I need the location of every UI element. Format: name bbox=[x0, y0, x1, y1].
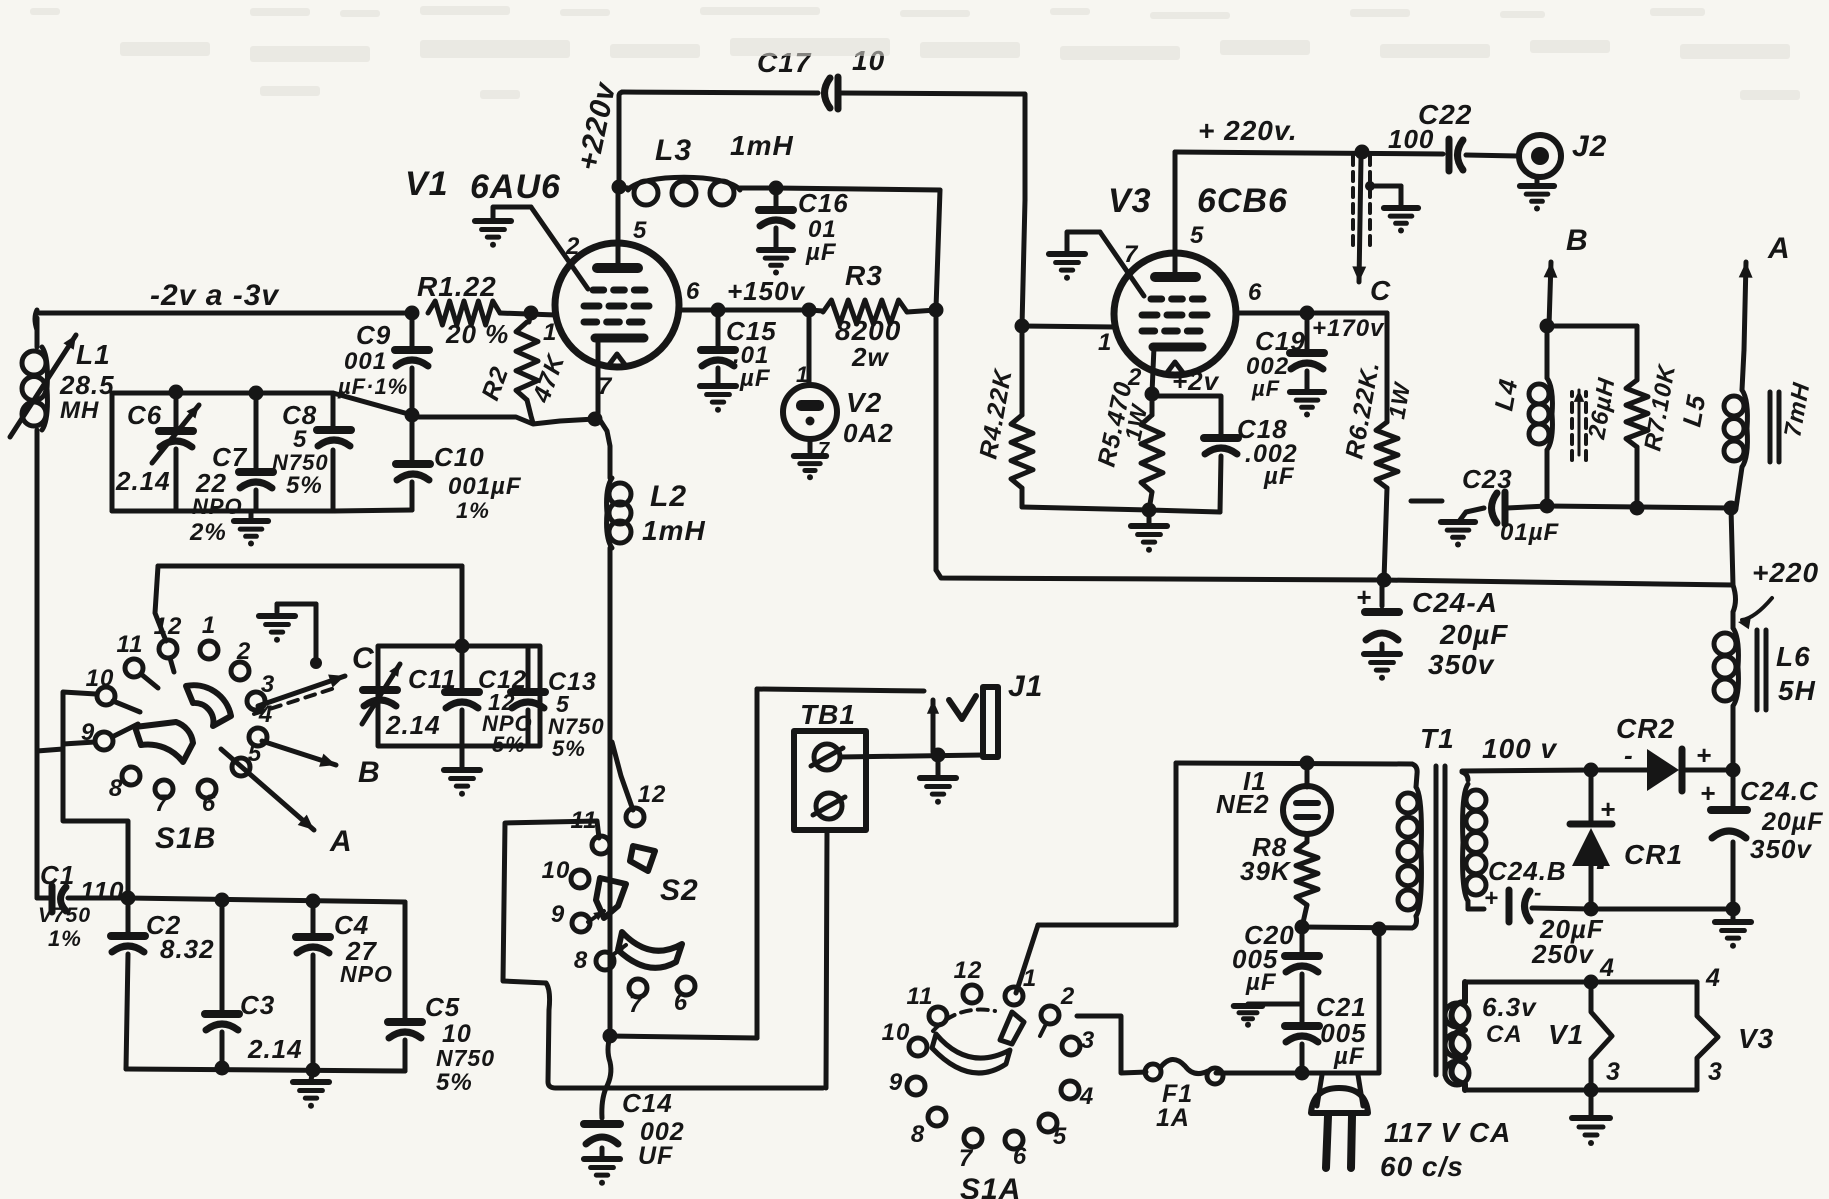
svg-text:L2: L2 bbox=[650, 480, 687, 513]
svg-text:C10: C10 bbox=[434, 442, 485, 472]
wire S1B flag bottom bbox=[63, 742, 95, 744]
label R3 bbox=[845, 260, 883, 291]
rotor S1B upper wedge bbox=[186, 685, 231, 726]
svg-text:µF: µF bbox=[1251, 376, 1280, 401]
label V3 pin7 bbox=[1124, 241, 1139, 268]
label + 220v. bbox=[1198, 115, 1298, 146]
wire secondary top bbox=[1462, 770, 1591, 771]
wire cap box bottom bbox=[112, 509, 333, 514]
svg-text:5: 5 bbox=[293, 426, 307, 453]
label L6 bbox=[1776, 641, 1811, 672]
ground J1 bbox=[920, 757, 956, 805]
arrow B output bbox=[1544, 224, 1589, 326]
label L1 bbox=[76, 339, 111, 370]
lamp I1 wire bbox=[1305, 763, 1310, 787]
svg-text:11: 11 bbox=[117, 631, 144, 658]
svg-text:1mH: 1mH bbox=[642, 515, 706, 546]
svg-text:1mH: 1mH bbox=[730, 130, 794, 161]
svg-text:+: + bbox=[1600, 794, 1616, 824]
arrow S2 tick9 bbox=[588, 911, 604, 922]
label V1 heater bbox=[1548, 1019, 1584, 1050]
label R8 bbox=[1252, 832, 1287, 862]
label C9 bbox=[356, 320, 391, 350]
label +220v rot bbox=[572, 78, 623, 173]
transformer T1 core bbox=[1436, 766, 1445, 1075]
svg-text:V2: V2 bbox=[846, 387, 882, 418]
label C23 minus bbox=[1411, 499, 1442, 504]
wire S1B tick 9 bbox=[112, 724, 138, 737]
label V2 pin7 bbox=[818, 439, 830, 461]
wire C9 node to cathode bbox=[412, 417, 595, 424]
wire V3 cathode bbox=[1152, 347, 1154, 393]
label C2 bbox=[146, 910, 181, 940]
ground C16 bbox=[759, 250, 793, 276]
svg-text:10: 10 bbox=[86, 665, 115, 692]
wire B+ rail right bbox=[1384, 580, 1733, 585]
node CR1 top bbox=[1584, 763, 1599, 778]
scan ghost marks bbox=[30, 6, 1800, 100]
svg-text:µF·1%: µF·1% bbox=[337, 374, 408, 399]
svg-text:28.5: 28.5 bbox=[59, 370, 115, 400]
resistor R4 bbox=[1011, 326, 1033, 507]
label R2 bbox=[476, 363, 514, 404]
label T1 bbox=[1420, 723, 1455, 754]
label R1 tol bbox=[445, 319, 509, 349]
label C9 value bbox=[344, 348, 387, 375]
capacitor C24A electrolytic bbox=[1356, 580, 1399, 652]
wire L3 to R3 rail bbox=[776, 188, 940, 190]
ground filament bbox=[1572, 1090, 1610, 1146]
svg-text:5%: 5% bbox=[492, 732, 526, 757]
wire C17 drop bbox=[1022, 200, 1025, 326]
label C7 tol bbox=[189, 519, 227, 546]
wire C17 left bbox=[622, 92, 818, 93]
label C10 tol bbox=[456, 498, 490, 523]
wire V1 pin5 bbox=[616, 187, 621, 266]
svg-text:7: 7 bbox=[959, 1145, 974, 1172]
wire left rail upper bbox=[35, 318, 40, 347]
svg-text:T1: T1 bbox=[1420, 723, 1455, 754]
label C20 unit bbox=[1245, 969, 1277, 996]
wire S2 bottom link bbox=[556, 1086, 823, 1091]
svg-text:A: A bbox=[329, 825, 353, 858]
svg-text:C24.C: C24.C bbox=[1740, 776, 1819, 806]
label J2 bbox=[1572, 130, 1607, 163]
wire cap box left bbox=[110, 393, 115, 511]
capacitor C11 variable bbox=[362, 664, 400, 724]
label V3 pin5 bbox=[1190, 222, 1204, 249]
svg-text:C5: C5 bbox=[425, 992, 460, 1022]
svg-text:60 c/s: 60 c/s bbox=[1380, 1151, 1464, 1182]
svg-text:6: 6 bbox=[1248, 279, 1262, 306]
switch S1B contacts bbox=[95, 640, 267, 798]
wire rail to S1B flag bbox=[37, 749, 63, 751]
label R6 bbox=[1340, 359, 1385, 461]
svg-text:5: 5 bbox=[248, 740, 262, 767]
label C21 bbox=[1316, 992, 1367, 1022]
label C18 value bbox=[1245, 440, 1298, 468]
svg-text:-: - bbox=[1624, 740, 1634, 770]
rotor S1A wedge bbox=[1000, 1012, 1024, 1044]
wire top 220 rail bbox=[1175, 152, 1443, 154]
label T1 volt bbox=[1482, 733, 1557, 764]
resistor R2 bbox=[516, 313, 538, 423]
arrow C wiper bbox=[254, 675, 345, 715]
svg-text:+: + bbox=[1700, 778, 1716, 808]
svg-text:7: 7 bbox=[155, 790, 170, 817]
core L5 bbox=[1770, 392, 1779, 462]
label C24B value bbox=[1539, 914, 1604, 944]
label C1 bbox=[40, 860, 75, 890]
wire S1A riser h bbox=[1038, 923, 1176, 928]
wire S1A to fuse bbox=[1077, 1016, 1146, 1073]
node J1 ground bbox=[931, 748, 946, 763]
wire plug drop bbox=[1377, 929, 1382, 1073]
label C5 bbox=[425, 992, 460, 1022]
dashed tuning arrow L4 bbox=[1572, 390, 1586, 460]
dashed C link bbox=[1353, 156, 1370, 245]
wire S1A contact1 diag bbox=[1016, 925, 1038, 993]
label L3 value bbox=[730, 130, 794, 161]
svg-text:-: - bbox=[1534, 880, 1542, 905]
label C19 bbox=[1255, 326, 1306, 356]
label L2 bbox=[650, 480, 687, 513]
label V2 type bbox=[843, 418, 894, 448]
svg-text:0A2: 0A2 bbox=[843, 418, 894, 448]
svg-text:5: 5 bbox=[1190, 222, 1204, 249]
wire pin6 to V2 node bbox=[718, 308, 809, 313]
svg-text:B: B bbox=[1566, 224, 1589, 257]
label V2 bbox=[846, 387, 882, 418]
arrow A wiper bbox=[221, 749, 314, 830]
label C21 unit bbox=[1333, 1043, 1365, 1070]
rotor S2 arc bbox=[618, 932, 682, 968]
capacitor C17 bbox=[825, 77, 839, 109]
label A wiper bbox=[329, 825, 353, 858]
svg-text:C6: C6 bbox=[127, 400, 162, 430]
tube V3 envelope bbox=[1114, 253, 1236, 375]
capacitor C23 bbox=[1441, 492, 1547, 548]
label V1 pin2 bbox=[565, 233, 580, 260]
ground botbox bbox=[293, 1070, 329, 1109]
svg-text:L6: L6 bbox=[1776, 641, 1811, 672]
label C4 tc bbox=[340, 961, 393, 987]
capacitor C16 bbox=[759, 188, 793, 248]
capacitor C7 bbox=[239, 393, 273, 511]
resistor R5 bbox=[1141, 394, 1163, 510]
label R4 bbox=[974, 366, 1018, 461]
wire R4 bottom rail bbox=[1022, 507, 1149, 510]
wire C20 ground stub bbox=[1234, 1004, 1302, 1028]
capacitor C24C bbox=[1711, 770, 1747, 909]
ground C15 bbox=[700, 386, 736, 413]
label C arrow bbox=[1370, 275, 1391, 306]
node R1 left bbox=[405, 306, 420, 321]
node cathode join bbox=[588, 412, 603, 427]
svg-text:7: 7 bbox=[1124, 241, 1139, 268]
switch S2 contact numbers bbox=[542, 781, 689, 1018]
label V1 pin6 bbox=[686, 278, 700, 305]
svg-text:C3: C3 bbox=[240, 990, 275, 1020]
svg-text:CA: CA bbox=[1486, 1021, 1523, 1048]
node filament pin3 bbox=[1584, 1083, 1599, 1098]
label C10 bbox=[434, 442, 485, 472]
inductor L4 bbox=[1529, 326, 1552, 506]
wire S1B flag top bbox=[63, 692, 96, 744]
label L6 value bbox=[1778, 675, 1816, 706]
label pin4 V1 bbox=[1599, 954, 1615, 982]
label C24C plus bbox=[1700, 778, 1716, 808]
label V1 pin5 bbox=[633, 217, 647, 244]
diode CR2 bbox=[1647, 749, 1733, 791]
label +220 hook bbox=[1738, 557, 1819, 629]
svg-text:1: 1 bbox=[1098, 329, 1112, 356]
svg-text:S1B: S1B bbox=[155, 822, 216, 855]
svg-text:+2v: +2v bbox=[1172, 366, 1220, 396]
rotor S1B lower wedge bbox=[135, 722, 193, 762]
capacitor C5 bbox=[388, 902, 422, 1071]
resistor R8 bbox=[1296, 834, 1318, 927]
svg-text:4: 4 bbox=[1705, 964, 1721, 992]
transformer T1 primary bbox=[1398, 764, 1421, 928]
svg-text:A: A bbox=[1767, 232, 1791, 265]
wire S2 to mains wire bbox=[546, 983, 556, 1088]
diode CR1 bbox=[1570, 770, 1612, 909]
svg-text:+: + bbox=[1696, 740, 1712, 770]
label L4 bbox=[1488, 376, 1523, 413]
label L5 bbox=[1676, 392, 1711, 429]
svg-text:C9: C9 bbox=[356, 320, 391, 350]
node C16 top bbox=[769, 181, 784, 196]
label C6 bbox=[127, 400, 162, 430]
label R2 pin1 bbox=[543, 319, 557, 346]
svg-text:5%: 5% bbox=[552, 736, 586, 761]
svg-text:B: B bbox=[358, 756, 381, 789]
wire R7 drop bbox=[1635, 326, 1640, 380]
svg-text:5%: 5% bbox=[436, 1069, 473, 1096]
label C8 tol bbox=[286, 472, 323, 499]
wire L5 rail drop bbox=[1731, 508, 1733, 585]
label C24B bbox=[1488, 856, 1567, 886]
label R5 bbox=[1092, 379, 1137, 470]
label C8 value bbox=[293, 426, 307, 453]
label V3 pin1 bbox=[1098, 329, 1112, 356]
svg-text:2.14: 2.14 bbox=[385, 710, 441, 740]
wire C23 rail bbox=[1547, 506, 1731, 508]
svg-text:3: 3 bbox=[1708, 1058, 1723, 1086]
resistor R1 bbox=[428, 301, 500, 325]
ground C24C bbox=[1715, 909, 1751, 949]
wire C17 right bbox=[841, 93, 1025, 200]
terminal block TB1 bbox=[794, 731, 866, 830]
wire plate riser bbox=[619, 92, 624, 187]
svg-text:6: 6 bbox=[1013, 1143, 1027, 1170]
wire C16 rail drop bbox=[936, 190, 940, 308]
switch S1A contact numbers bbox=[882, 957, 1096, 1172]
label V1 pin7 bbox=[598, 373, 613, 400]
label +2v bbox=[1172, 366, 1220, 396]
wire box2 top edge bbox=[158, 564, 462, 569]
rotor S2 wedge 9 bbox=[596, 878, 626, 918]
resistor R3 bbox=[809, 300, 936, 324]
svg-text:20µF: 20µF bbox=[1761, 808, 1823, 836]
capacitor C22 bbox=[1449, 139, 1463, 171]
capacitor C6 variable bbox=[152, 392, 199, 511]
label C16 unit bbox=[805, 239, 837, 266]
node C14 top bbox=[603, 1029, 618, 1044]
svg-text:250v: 250v bbox=[1531, 939, 1594, 969]
svg-text:C19: C19 bbox=[1255, 326, 1306, 356]
wire L4 R7 rail bbox=[1547, 324, 1637, 329]
wire L2 down bbox=[608, 548, 613, 1035]
svg-text:C24-A: C24-A bbox=[1412, 587, 1498, 618]
capacitor C21 bbox=[1285, 1004, 1319, 1073]
wire V3 pin1 bbox=[1022, 326, 1115, 327]
svg-text:V1: V1 bbox=[1548, 1019, 1584, 1050]
svg-text:1: 1 bbox=[202, 612, 216, 639]
svg-text:L5: L5 bbox=[1676, 392, 1711, 429]
label I1 type bbox=[1216, 789, 1270, 819]
svg-text:5: 5 bbox=[1053, 1123, 1067, 1150]
label C15 bbox=[726, 316, 777, 346]
svg-text:L3: L3 bbox=[655, 134, 692, 167]
svg-text:6CB6: 6CB6 bbox=[1197, 182, 1288, 220]
svg-text:N750: N750 bbox=[436, 1045, 495, 1071]
svg-text:350v: 350v bbox=[1428, 649, 1495, 680]
label C16 value bbox=[808, 216, 837, 243]
wire primary bottom bbox=[1302, 927, 1412, 928]
node rail dashed C bbox=[1355, 145, 1370, 160]
label C18 unit bbox=[1263, 463, 1295, 490]
label C1 value bbox=[80, 876, 124, 906]
label C12 value bbox=[488, 689, 516, 715]
switch S1B contact numbers bbox=[81, 612, 275, 817]
inductor L1 bbox=[10, 335, 76, 437]
label L1 value bbox=[59, 370, 115, 400]
node R3 right bbox=[929, 303, 944, 318]
label L1 unit bbox=[60, 397, 99, 424]
svg-text:2: 2 bbox=[236, 638, 251, 665]
label C wiper bbox=[352, 642, 375, 675]
capacitor C19 bbox=[1290, 313, 1324, 390]
ground R5 bbox=[1131, 512, 1167, 553]
label C17 bbox=[757, 47, 812, 78]
label mains volt bbox=[1384, 1117, 1511, 1148]
wire box2 right edge bbox=[460, 566, 465, 646]
label C8 tc bbox=[272, 450, 329, 475]
label J1 bbox=[1008, 670, 1043, 703]
svg-text:001: 001 bbox=[344, 348, 387, 375]
node R5 bottom bbox=[1142, 503, 1157, 518]
svg-text:110: 110 bbox=[80, 876, 124, 906]
svg-text:+ 220v.: + 220v. bbox=[1198, 115, 1298, 146]
capacitor C10 bbox=[334, 415, 430, 511]
node C6 top bbox=[169, 385, 184, 400]
svg-text:V1: V1 bbox=[405, 165, 449, 203]
ground C24A bbox=[1364, 654, 1400, 681]
svg-text:10: 10 bbox=[542, 857, 571, 884]
wire V1 grid lead bbox=[531, 207, 588, 289]
label C13 value bbox=[556, 691, 570, 717]
wire V1 pin7 cathode bbox=[598, 340, 610, 478]
label V3 type bbox=[1197, 182, 1288, 220]
label C24A bbox=[1412, 587, 1498, 618]
core L6 bbox=[1757, 630, 1766, 710]
arrow A output bbox=[1739, 232, 1791, 350]
label C9 unit bbox=[337, 374, 408, 399]
svg-text:20 %: 20 % bbox=[445, 319, 509, 349]
label +150v bbox=[727, 276, 806, 306]
svg-text:001µF: 001µF bbox=[448, 473, 522, 500]
svg-text:3: 3 bbox=[261, 671, 275, 698]
wire cap box top bbox=[112, 393, 412, 415]
label F1 value bbox=[1156, 1104, 1190, 1132]
label C15 unit bbox=[739, 365, 771, 392]
label C4 bbox=[334, 910, 369, 940]
label C2 value bbox=[160, 934, 215, 964]
wire B+ drop bbox=[934, 310, 939, 570]
wire left rail lower bbox=[35, 430, 40, 898]
svg-text:3: 3 bbox=[1081, 1027, 1095, 1054]
label R5 watt bbox=[1119, 401, 1152, 443]
svg-text:µF: µF bbox=[739, 365, 771, 392]
svg-text:01µF: 01µF bbox=[1500, 519, 1560, 546]
wire S1B contact9 leg bbox=[63, 744, 128, 898]
label V3 pin2 bbox=[1127, 364, 1142, 391]
svg-text:1: 1 bbox=[796, 362, 809, 387]
svg-text:6: 6 bbox=[686, 278, 700, 305]
svg-text:1%: 1% bbox=[456, 498, 490, 523]
svg-text:L4: L4 bbox=[1488, 376, 1523, 413]
node R7 bottom bbox=[1630, 501, 1645, 516]
svg-text:9: 9 bbox=[889, 1069, 903, 1096]
label CR2 bbox=[1616, 713, 1675, 744]
svg-text:5: 5 bbox=[633, 217, 647, 244]
box C11-C13 bbox=[378, 646, 540, 746]
tube V1 envelope bbox=[555, 243, 679, 367]
label L4 value bbox=[1583, 375, 1621, 442]
svg-text:20µF: 20µF bbox=[1439, 619, 1508, 650]
svg-text:µF: µF bbox=[1333, 1043, 1365, 1070]
svg-text:L1: L1 bbox=[76, 339, 111, 370]
svg-text:NPO: NPO bbox=[192, 494, 243, 519]
wire R1 to V1 grid bbox=[500, 313, 556, 315]
svg-text:C: C bbox=[1370, 275, 1391, 306]
resistor R7 bbox=[1626, 380, 1648, 508]
label pin3 V1 bbox=[1606, 1058, 1621, 1086]
ground S1B rotor bbox=[259, 604, 322, 669]
inductor L2 bbox=[607, 478, 631, 548]
svg-text:8.32: 8.32 bbox=[160, 934, 215, 964]
label C17 value bbox=[852, 45, 885, 76]
svg-text:V3: V3 bbox=[1738, 1023, 1774, 1054]
capacitor C4 bbox=[296, 901, 330, 1070]
label V2 pin1 bbox=[796, 362, 809, 387]
wire to CR2 bbox=[1591, 768, 1647, 773]
wire S1B tick 12 bbox=[170, 658, 174, 672]
svg-text:µF: µF bbox=[1263, 463, 1295, 490]
tube V2 regulator bbox=[783, 310, 837, 452]
label B wiper bbox=[358, 756, 381, 789]
label pin4 V3 bbox=[1705, 964, 1721, 992]
svg-text:C14: C14 bbox=[622, 1088, 673, 1118]
wire S1B tick 10 bbox=[113, 701, 140, 712]
wire TB1 left bbox=[755, 689, 760, 1038]
wire botbox top bbox=[128, 898, 405, 902]
svg-text:6AU6: 6AU6 bbox=[470, 168, 561, 206]
label C11 bbox=[408, 664, 457, 694]
jack J1 spring bbox=[949, 696, 976, 719]
